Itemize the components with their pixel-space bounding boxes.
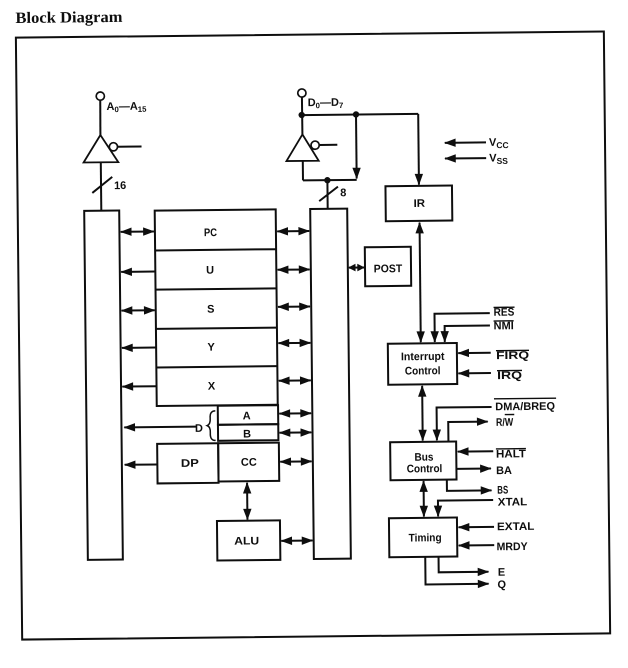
svg-text:Q: Q (497, 579, 506, 591)
signal E wire (439, 556, 489, 572)
wire ALU-data column (281, 540, 312, 542)
svg-text:EXTAL: EXTAL (497, 521, 535, 533)
svg-text:BS: BS (497, 484, 508, 496)
node junction data rail right (353, 111, 359, 117)
wire CC-data column (280, 460, 311, 462)
wire address buffer to address column (100, 162, 103, 210)
register stack PC U S Y X (155, 209, 278, 406)
signal EXTAL wire (459, 526, 494, 528)
svg-text:16: 16 (114, 180, 126, 192)
ALU box (217, 520, 280, 560)
Bus Control box (390, 442, 456, 481)
svg-text:D: D (195, 423, 203, 435)
svg-text:DMA/BREQ: DMA/BREQ (495, 401, 555, 414)
svg-text:IRQ: IRQ (497, 370, 523, 382)
bus width slash 8 (319, 187, 338, 201)
svg-text:Control: Control (405, 365, 441, 377)
Timing box (389, 518, 457, 558)
wire B-data column (280, 431, 312, 433)
power VCC arrow (445, 141, 486, 143)
svg-text:Y: Y (207, 342, 215, 354)
svg-text:RES: RES (494, 307, 515, 319)
signal DMA/BREQ wire (437, 407, 492, 440)
svg-text:ALU: ALU (234, 535, 259, 547)
svg-text:XTAL: XTAL (498, 496, 528, 508)
address bus pad terminal (96, 92, 104, 100)
data bus column (310, 209, 351, 559)
wire pad to buffer apex (99, 100, 102, 135)
bus width slash 16 (92, 177, 112, 193)
svg-text:X: X (208, 381, 216, 393)
register CC box (218, 443, 279, 482)
svg-text:IR: IR (414, 198, 426, 210)
address bus column (84, 211, 123, 560)
wire horizontal to data column (303, 179, 357, 182)
address output buffer (three-state) (83, 92, 142, 163)
enable stub wire (319, 144, 337, 146)
wire IR to Interrupt Control (bidirectional) (420, 223, 421, 343)
wire buffer base down (302, 161, 304, 180)
accumulator B box (218, 424, 278, 441)
wire PC-address column (121, 230, 154, 232)
wire Bus Control to Timing (bidirectional) (423, 481, 425, 516)
svg-text:D0—D7: D0—D7 (308, 97, 344, 111)
enable bubble (109, 143, 117, 151)
svg-text:Block Diagram: Block Diagram (15, 9, 122, 27)
wire Interrupt Control to Bus Control (bidirectional) (421, 386, 424, 441)
wire data bus top rail (302, 114, 418, 115)
wire X-address column (122, 385, 156, 387)
wire D to address column (124, 426, 196, 429)
signal XTAL wire (438, 500, 493, 516)
POST box (365, 247, 411, 286)
svg-text:Timing: Timing (409, 532, 442, 544)
wire X-data column (279, 379, 311, 381)
svg-text:CC: CC (241, 457, 257, 469)
accumulator A box (218, 405, 278, 425)
wire Y-data column (278, 342, 310, 344)
signal BS wire (447, 479, 492, 491)
wire A-data column (279, 412, 311, 414)
wire DP to address column (125, 463, 158, 465)
signal HALT wire (458, 450, 493, 452)
wire data rail down arrow to buffer output rail (355, 114, 358, 178)
buffer triangle (83, 135, 118, 163)
svg-text:BA: BA (496, 465, 512, 477)
svg-text:Interrupt: Interrupt (401, 351, 445, 363)
svg-text:MRDY: MRDY (497, 541, 529, 553)
wire PC-data column (277, 230, 309, 232)
svg-text:POST: POST (374, 263, 403, 275)
svg-text:A: A (243, 410, 251, 422)
svg-text:U: U (206, 265, 214, 277)
wire into data column (326, 180, 328, 209)
wire U-address column (121, 271, 155, 273)
Interrupt Control box (388, 343, 457, 385)
IR box (385, 186, 452, 222)
svg-text:B: B (243, 428, 251, 440)
signal MRDY wire (459, 544, 494, 546)
data bus pad terminal (298, 89, 306, 97)
node junction on data rail (298, 112, 304, 118)
enable stub wire (118, 145, 142, 147)
power VSS arrow (445, 157, 486, 159)
register DP box (157, 443, 218, 483)
svg-text:R/W: R/W (496, 417, 514, 429)
svg-text:Control: Control (407, 463, 443, 475)
wire S-data column (278, 306, 310, 308)
svg-text:8: 8 (340, 187, 346, 199)
wire CC-ALU (246, 483, 248, 520)
svg-text:FIRQ: FIRQ (496, 350, 530, 362)
svg-text:S: S (207, 304, 214, 316)
wire POST-data column (349, 266, 364, 268)
wire S-address column (122, 309, 155, 311)
wire Y-address column (122, 347, 156, 349)
signal NMI wire (445, 326, 490, 342)
data buffer (three-state) (286, 89, 338, 162)
svg-text:E: E (498, 567, 505, 579)
signal FIRQ wire (458, 352, 490, 354)
wire pad to buffer apex (301, 97, 303, 134)
svg-text:PC: PC (204, 227, 217, 239)
signal BA wire (456, 468, 490, 470)
enable bubble (311, 141, 319, 149)
svg-text:DP: DP (181, 458, 199, 470)
signal R/W wire (448, 422, 488, 442)
svg-text:HALT: HALT (496, 448, 526, 460)
svg-text:NMI: NMI (494, 320, 514, 332)
svg-text:Bus: Bus (414, 452, 433, 464)
wire data rail down into IR (417, 114, 420, 185)
buffer triangle (286, 134, 318, 161)
signal RES wire (434, 313, 490, 342)
node junction above data column (324, 177, 330, 183)
signal IRQ wire (458, 372, 490, 374)
wire U-data column (278, 268, 310, 270)
signal Q wire (425, 556, 488, 584)
